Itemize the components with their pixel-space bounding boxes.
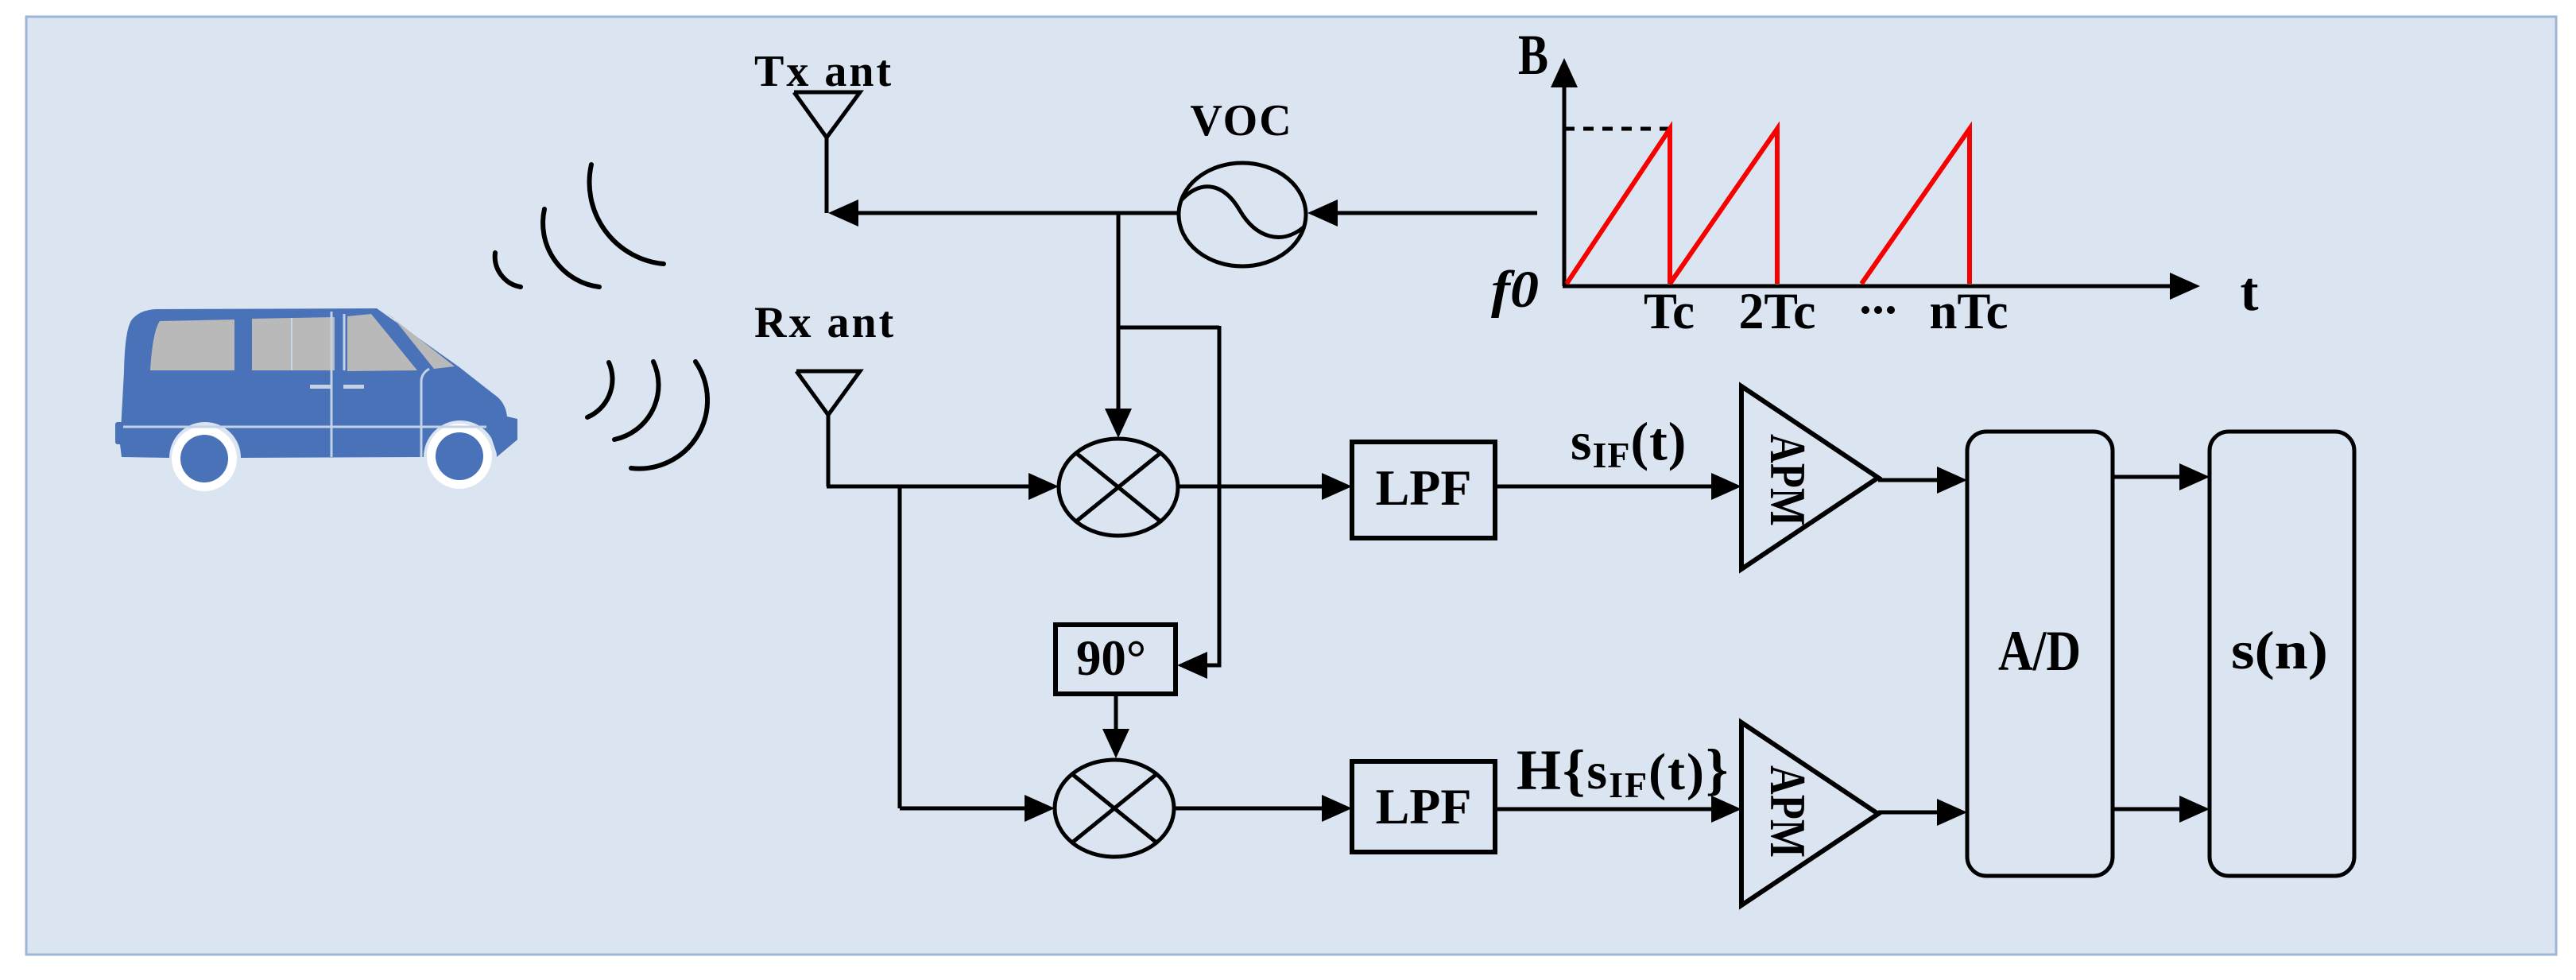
svg-text:Rx ant: Rx ant [754,298,896,347]
svg-text:VOC: VOC [1190,96,1292,145]
svg-text:s(n): s(n) [2231,620,2328,680]
svg-text:Tx ant: Tx ant [754,47,893,96]
svg-text:2Tc: 2Tc [1739,283,1816,340]
svg-text:LPF: LPF [1376,778,1472,835]
svg-text:APM: APM [1760,434,1816,526]
svg-text:B: B [1518,23,1548,87]
svg-text:90°: 90° [1076,629,1146,686]
svg-text:A/D: A/D [1998,619,2081,683]
svg-text:Tc: Tc [1644,283,1695,340]
svg-text:LPF: LPF [1376,459,1472,516]
svg-text:t: t [2241,261,2259,323]
svg-text:f0: f0 [1491,261,1539,319]
svg-text:APM: APM [1760,765,1816,858]
svg-text:nTc: nTc [1930,283,2009,340]
